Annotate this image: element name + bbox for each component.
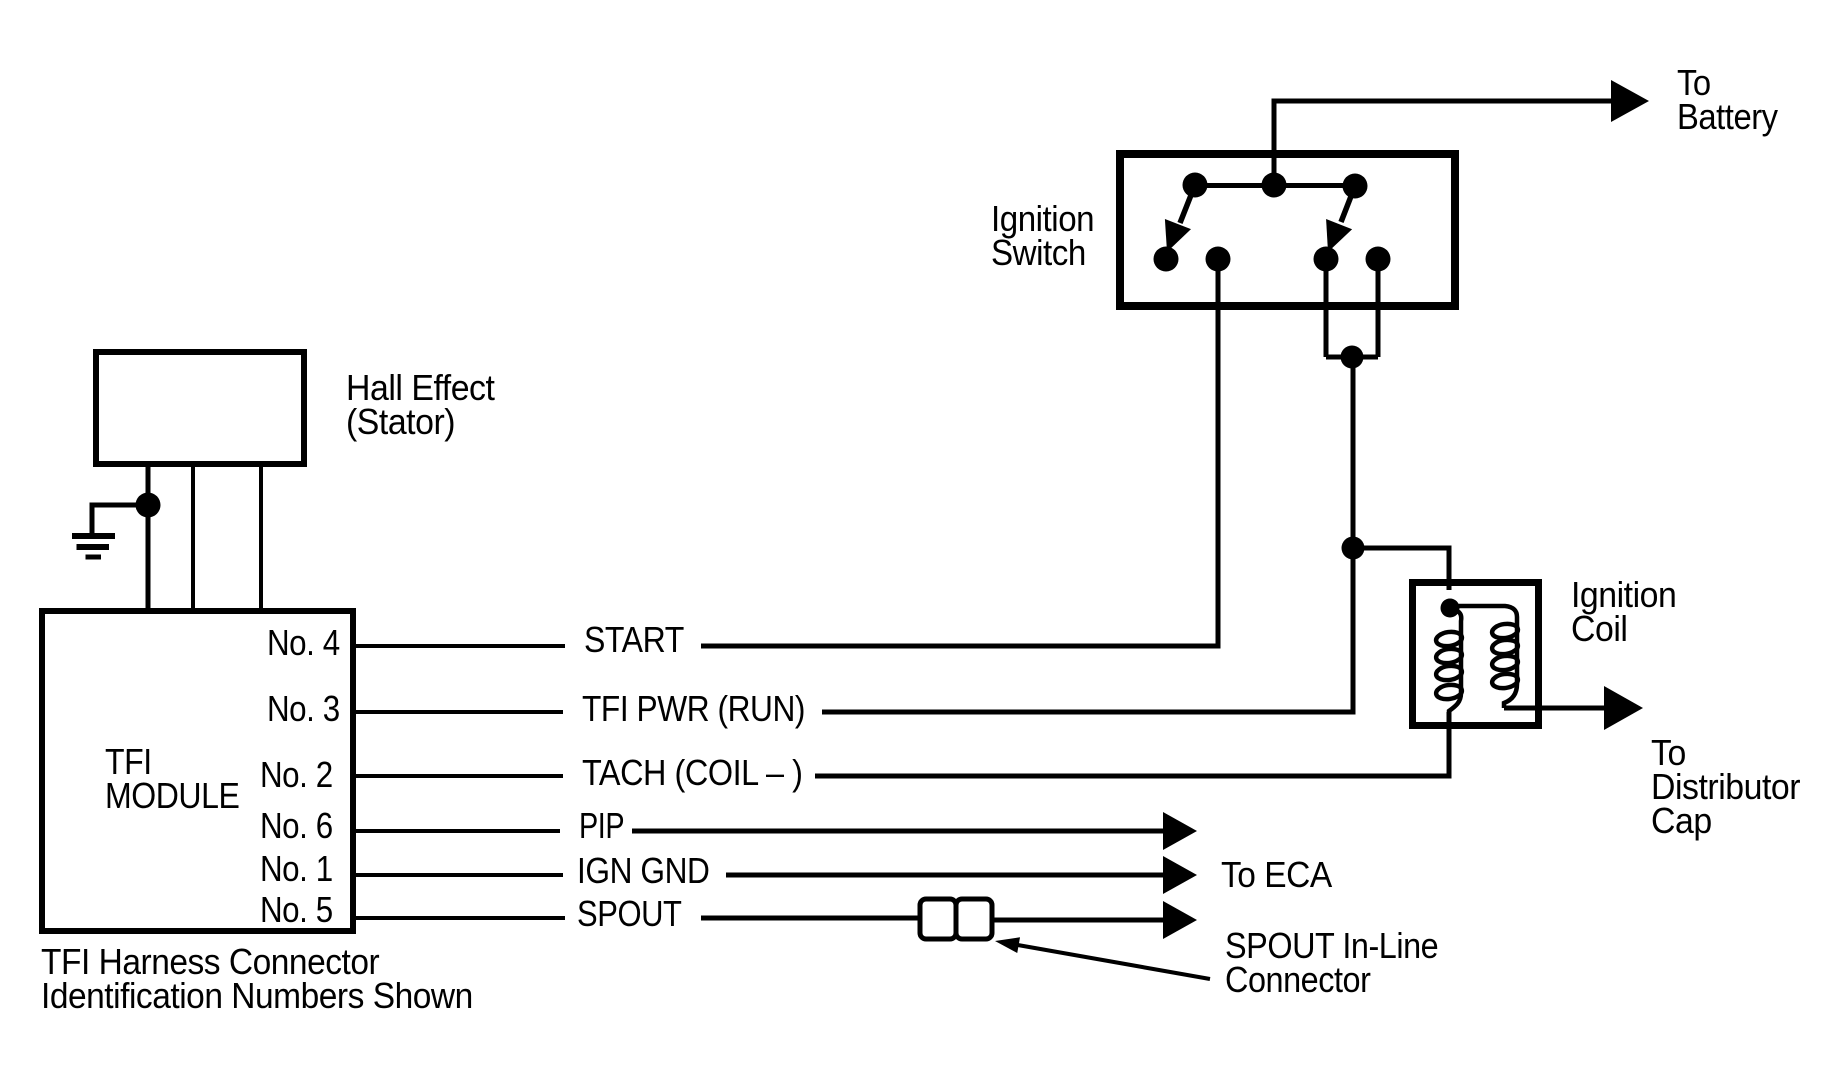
wire hall pin B xyxy=(191,467,195,611)
node switch contact a xyxy=(1154,247,1179,272)
node switch contact d xyxy=(1366,247,1391,272)
arrowhead of callout pointer xyxy=(994,933,1020,953)
node switch terminal 1 xyxy=(1183,173,1208,198)
label pin No. 4 xyxy=(267,626,340,660)
arrow SPOUT to ECA xyxy=(1163,901,1197,939)
label to battery xyxy=(1677,66,1778,134)
node switch contact b xyxy=(1206,247,1231,272)
label footnote xyxy=(41,945,473,1013)
wire TACH to coil primary xyxy=(815,712,1449,776)
wire hall pin C xyxy=(259,467,263,611)
label ignition switch xyxy=(991,202,1094,270)
arrowhead switch arm 1 xyxy=(1154,219,1191,257)
node coil primary top xyxy=(1441,599,1460,618)
switch arm 2 xyxy=(1341,186,1355,222)
label pin No. 6 xyxy=(260,809,333,843)
label pin No. 3 xyxy=(267,692,340,726)
label net PIP xyxy=(579,809,624,843)
ground xyxy=(72,536,115,557)
wire switch contact c down xyxy=(1324,259,1329,357)
hall effect sensor box xyxy=(96,352,304,464)
label pin No. 2 xyxy=(260,758,333,792)
label net TFI PWR (RUN) xyxy=(582,692,805,726)
TFI module box xyxy=(42,611,353,931)
label net START xyxy=(584,623,684,657)
label TFI module xyxy=(105,745,239,813)
wire TFI PWR run xyxy=(822,357,1353,712)
arrow to distributor cap xyxy=(1604,686,1643,730)
arrow to battery xyxy=(1611,80,1649,122)
wire SPOUT to connector xyxy=(701,916,920,921)
switch arm 1 xyxy=(1180,185,1195,223)
label hall effect xyxy=(346,371,494,439)
callout pointer to SPOUT connector xyxy=(1012,944,1210,979)
node switch contact c xyxy=(1314,247,1339,272)
wire coil secondary to distributor xyxy=(1504,706,1608,711)
coil primary winding xyxy=(1435,608,1463,722)
ignition coil box xyxy=(1413,583,1539,726)
label spout in-line connector xyxy=(1225,929,1438,997)
label to distributor cap xyxy=(1651,736,1800,838)
label net TACH (COIL -) xyxy=(582,756,803,790)
wire ground branch xyxy=(92,505,148,533)
ignition switch box xyxy=(1120,154,1455,306)
label ignition coil xyxy=(1571,578,1676,646)
node run feed junction xyxy=(1341,346,1364,369)
wire hall pin A xyxy=(146,467,151,611)
wire START pin stub xyxy=(356,644,565,648)
wire PIP pin stub xyxy=(356,829,560,833)
label pin No. 1 xyxy=(260,852,333,886)
wire TACH pin stub xyxy=(356,774,563,778)
wire battery feed xyxy=(1274,101,1613,185)
label net IGN GND xyxy=(577,854,709,888)
wire switch bus xyxy=(1195,183,1355,188)
label to ECA xyxy=(1221,858,1332,892)
wire TFI PWR pin stub xyxy=(356,710,563,714)
node ground junction xyxy=(136,493,161,518)
SPOUT in-line connector xyxy=(920,899,992,939)
wire IGN GND pin stub xyxy=(356,873,563,877)
label pin No. 5 xyxy=(260,893,333,927)
wire coil feed xyxy=(1353,548,1449,590)
wire PIP to ECA xyxy=(632,829,1166,834)
wire switch contact d down xyxy=(1376,259,1381,357)
arrow PIP to ECA xyxy=(1163,812,1197,850)
wire SPOUT connector to ECA xyxy=(992,918,1166,923)
arrow IGN GND to ECA xyxy=(1163,856,1197,894)
label net SPOUT xyxy=(577,897,682,931)
coil secondary winding xyxy=(1458,606,1519,708)
wire contact join xyxy=(1326,355,1378,360)
arrowhead switch arm 2 xyxy=(1315,219,1352,257)
wire START to ignition switch xyxy=(701,262,1218,646)
node switch terminal feed xyxy=(1262,173,1287,198)
node switch terminal 2 xyxy=(1343,174,1368,199)
wire IGN GND to ECA xyxy=(726,873,1166,878)
wire SPOUT pin stub xyxy=(356,916,565,920)
node coil feed junction xyxy=(1342,537,1365,560)
